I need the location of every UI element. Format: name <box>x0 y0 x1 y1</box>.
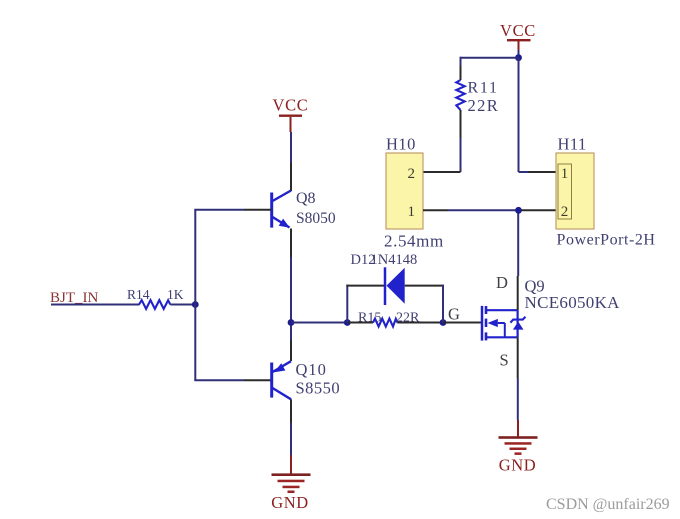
svg-text:1N4148: 1N4148 <box>371 252 418 268</box>
svg-text:CSDN @unfair269: CSDN @unfair269 <box>546 496 670 513</box>
wire R11 bottom to H10 pin2 <box>423 110 461 172</box>
svg-text:NCE6050KA: NCE6050KA <box>525 293 621 312</box>
resistor R15 <box>373 319 397 327</box>
node junction drain row <box>515 207 522 214</box>
node junction push-pull output <box>288 319 295 326</box>
diode D12 <box>385 267 405 305</box>
wire drain up to H-port row <box>517 210 520 310</box>
wire VCC down to H11 pin1 <box>519 58 557 172</box>
svg-text:PowerPort-2H: PowerPort-2H <box>557 232 656 249</box>
wire VCC stub to junction <box>518 50 520 58</box>
wire Q10 emitter up to node <box>290 323 292 362</box>
svg-text:R11: R11 <box>468 80 499 97</box>
node junction VCC <box>515 54 522 61</box>
connector H10 <box>386 153 423 229</box>
svg-text:2.54mm: 2.54mm <box>384 232 444 251</box>
svg-text:D: D <box>496 273 508 292</box>
svg-text:R15: R15 <box>358 311 381 326</box>
wire Q8 collector to VCC <box>290 132 292 191</box>
resistor R11 <box>456 80 464 110</box>
resistor R14 <box>139 300 170 309</box>
wire source down to GND <box>517 337 519 420</box>
ground GND left <box>271 455 310 512</box>
power VCC right <box>500 21 536 50</box>
svg-text:1: 1 <box>561 166 569 182</box>
svg-text:GND: GND <box>499 456 537 475</box>
svg-text:S8050: S8050 <box>296 210 336 227</box>
svg-text:2: 2 <box>561 204 569 220</box>
svg-text:H10: H10 <box>386 135 416 154</box>
svg-text:R14: R14 <box>127 287 150 302</box>
node junction R15 left <box>344 319 351 326</box>
wire to Q8 base <box>194 209 271 211</box>
svg-text:2: 2 <box>408 166 416 182</box>
wire R15 right lead <box>397 322 443 324</box>
svg-text:VCC: VCC <box>272 96 308 115</box>
connector H11 <box>556 153 594 229</box>
ground GND right <box>499 420 538 475</box>
svg-text:Q10: Q10 <box>296 360 327 379</box>
wire H10 pin1 to H11 pin2 <box>423 209 556 211</box>
wire BJT_IN to R14 <box>51 304 140 306</box>
transistor Q8 <box>270 191 291 228</box>
wire vertical base bus <box>194 210 196 380</box>
svg-text:1: 1 <box>408 204 416 220</box>
wire R15 left lead <box>347 322 373 324</box>
wire Q8 emitter down to node <box>290 229 292 323</box>
wire to Q10 base <box>194 379 271 381</box>
power VCC left (Q8 collector supply) <box>272 96 308 133</box>
svg-text:S8550: S8550 <box>296 379 341 398</box>
svg-text:GND: GND <box>271 493 309 512</box>
svg-text:22R: 22R <box>468 96 500 115</box>
transistor Q10 <box>270 361 291 399</box>
svg-text:1K: 1K <box>167 287 184 302</box>
wire D12 loop left <box>346 285 384 323</box>
node junction BJT_IN column <box>192 301 199 308</box>
wire VCC to R11 column <box>461 57 519 80</box>
wire Q10 collector down to GND <box>290 399 292 455</box>
svg-text:G: G <box>448 305 460 324</box>
svg-text:H11: H11 <box>558 135 587 154</box>
svg-text:Q8: Q8 <box>296 190 316 207</box>
wire gate lead <box>443 322 481 324</box>
wire D12 loop right <box>405 285 444 323</box>
svg-text:VCC: VCC <box>500 21 536 40</box>
mosfet Q9 <box>482 306 525 341</box>
node junction R15 right / gate <box>440 319 447 326</box>
wire output node to R15/D12 <box>291 322 347 324</box>
wire R14 to junction <box>170 304 195 306</box>
svg-text:S: S <box>500 351 509 370</box>
